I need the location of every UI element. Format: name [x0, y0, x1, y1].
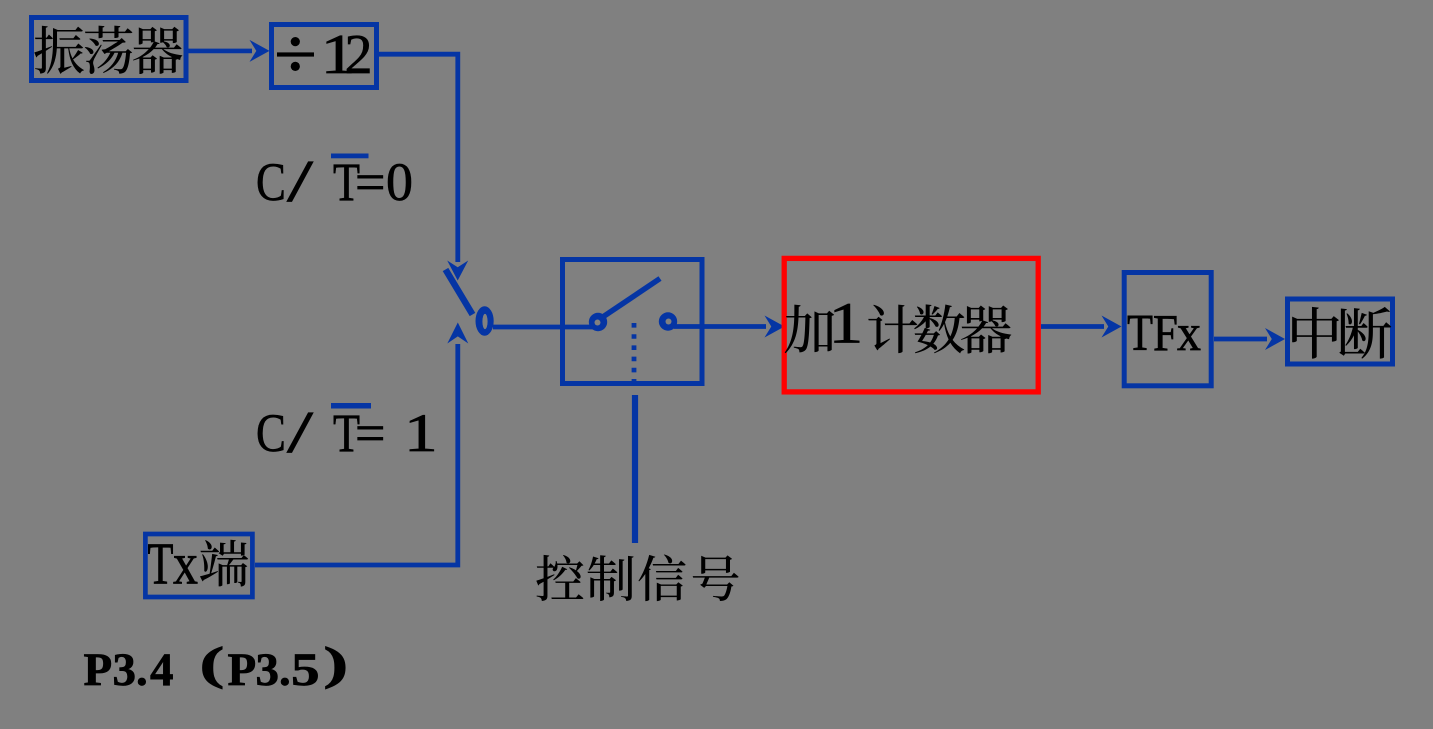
svg-text:P: P — [228, 644, 257, 696]
block 中断 (interrupt) box — [1288, 299, 1393, 364]
svg-text:x: x — [1177, 305, 1201, 362]
arrowhead into 中断 — [1265, 328, 1285, 350]
control gate box — [563, 260, 703, 384]
svg-text:3: 3 — [113, 644, 137, 696]
block ÷12 divider box — [272, 25, 377, 88]
arrowhead down at switch top contact — [447, 261, 468, 281]
switch pivot ellipse — [476, 306, 494, 335]
svg-text:.: . — [136, 644, 148, 696]
svg-text:1: 1 — [829, 291, 864, 355]
svg-text:P: P — [84, 644, 113, 696]
block 加1计数器 (+1 counter) red box — [784, 258, 1038, 392]
block TFx flag box — [1124, 273, 1211, 386]
svg-text:T: T — [148, 531, 174, 597]
svg-text:C: C — [256, 152, 286, 212]
wire Tx端 right then up to switch — [255, 344, 458, 565]
overline over T (line 2) — [331, 403, 371, 409]
svg-text:T: T — [1127, 305, 1153, 362]
gate left contact — [589, 313, 607, 331]
arrowhead up at switch bottom contact — [447, 323, 468, 344]
svg-text:F: F — [1153, 305, 1178, 362]
label P3.4（P3.5） — [84, 637, 349, 696]
label C/T=0 (timer mode) — [256, 148, 413, 214]
dotted control line inside box — [632, 323, 637, 390]
svg-text:x: x — [173, 531, 198, 597]
svg-text:0: 0 — [386, 152, 413, 212]
label 加1计数器 text — [785, 291, 1012, 355]
overline over T (line 1) — [331, 154, 369, 159]
svg-text:2: 2 — [345, 24, 373, 86]
label ÷12 text — [277, 24, 373, 86]
svg-text:5: 5 — [291, 644, 320, 696]
gate right contact — [659, 312, 677, 330]
solid control line below box — [632, 395, 638, 543]
label 控制信号 (control signal) — [536, 554, 738, 601]
switch pole (selector arm) — [446, 270, 473, 315]
wire gate right contact to 加1计数器 — [674, 324, 766, 329]
arrowhead into TFx — [1102, 316, 1122, 338]
gate pole — [599, 279, 660, 320]
label Tx端 text — [148, 531, 249, 597]
arrowhead into 加1计数器 — [765, 316, 785, 338]
svg-text:C: C — [256, 403, 286, 463]
svg-text:1: 1 — [404, 404, 438, 463]
wire ÷12 right then down to switch — [379, 54, 458, 262]
svg-text:.: . — [279, 644, 291, 696]
arrowhead into ÷12 — [250, 40, 270, 62]
wire 振荡器 to ÷12 — [188, 49, 252, 54]
svg-text:/: / — [287, 148, 314, 214]
block 振荡器 (oscillator) box — [32, 18, 187, 81]
svg-text:4: 4 — [150, 644, 174, 696]
wire TFx to 中断 — [1214, 337, 1267, 342]
label 振荡器 text — [34, 26, 182, 74]
svg-text:): ) — [323, 637, 348, 689]
svg-text:=: = — [355, 152, 385, 212]
label TFx text — [1127, 305, 1201, 362]
svg-text:3: 3 — [256, 644, 280, 696]
svg-text:=: = — [355, 403, 385, 463]
block Tx端 (Tx pin) box — [145, 534, 252, 597]
wire switch pivot to control-box left contact — [493, 325, 593, 330]
wire 加1计数器 to TFx — [1041, 324, 1104, 329]
label 中断 text — [1292, 307, 1391, 359]
svg-text:/: / — [287, 399, 314, 465]
label C/T=1 (counter mode) — [256, 399, 438, 465]
svg-text:(: ( — [199, 637, 224, 689]
